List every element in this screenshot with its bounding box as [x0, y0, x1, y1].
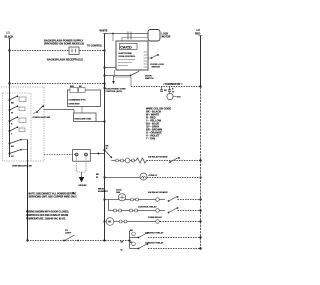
svg-text:(PROVIDED ON SOME MODELS): (PROVIDED ON SOME MODELS): [44, 42, 84, 46]
svg-text:R: R: [172, 89, 174, 91]
node junction row5 L2: [199, 209, 201, 211]
svg-text:RED: RED: [70, 86, 75, 88]
node junction backsplash: [8, 49, 10, 51]
svg-text:CONTROL (EOC): CONTROL (EOC): [106, 91, 123, 93]
node junction eoc left 1: [103, 66, 105, 68]
svg-text:OVEN LT: OVEN LT: [149, 175, 159, 177]
switch row5 relay: [168, 207, 179, 213]
node junction convect1 L2: [199, 236, 201, 238]
svg-text:OV: OV: [65, 230, 69, 232]
svg-text:CA/CD: CA/CD: [120, 46, 132, 50]
selector switch SW4: [9, 126, 26, 135]
svg-text:< THERMOSTAT >: < THERMOSTAT >: [163, 83, 183, 86]
switch convect 1: [130, 232, 149, 238]
selector switch SW2: [9, 105, 26, 114]
wire left to center y83: [10, 83, 105, 85]
wire branch row5: [108, 200, 110, 211]
svg-text:BK: BK: [96, 174, 100, 176]
selector switch enclosure dashed: [3, 93, 32, 161]
svg-text:DOOR: DOOR: [145, 75, 152, 77]
label note block 1: [29, 191, 78, 198]
wire lock motor bottom: [122, 38, 148, 42]
wire bottom row: [28, 240, 130, 242]
wire backsplash supply: [10, 50, 105, 52]
node junction light row: [103, 176, 105, 178]
dashed enclosure right extension: [31, 87, 44, 161]
thermostat contact 2: [168, 87, 174, 94]
thermostat contact 1: [160, 87, 167, 93]
svg-text:FAN: FAN: [116, 191, 121, 194]
oven lamp DS1: [140, 173, 147, 180]
node junction receptacle: [98, 153, 100, 155]
switch convect 2: [130, 243, 149, 249]
selector switch SW1: [9, 95, 27, 104]
node junction convect2 L2: [199, 247, 201, 249]
door lock switch S2: [148, 54, 159, 59]
wire center bus: [104, 34, 106, 241]
svg-text:OVEN LIGHT SW: OVEN LIGHT SW: [33, 117, 51, 119]
node junction fan row: [103, 198, 105, 200]
wire thermostat row: [131, 86, 201, 88]
svg-text:BK: BK: [11, 103, 14, 105]
label BK oven light row: [96, 174, 100, 179]
wire EOC drop: [112, 34, 114, 42]
node junction bake row: [103, 149, 105, 151]
wire row5 to L2: [178, 210, 201, 212]
svg-text:BU: BU: [11, 146, 14, 148]
wire lamp to L2: [147, 177, 201, 179]
wire row5: [109, 210, 166, 212]
svg-text:ELECTRONIC: ELECTRONIC: [119, 53, 133, 55]
node N center bus top: [100, 30, 108, 34]
node junction row6 L2: [199, 220, 201, 222]
svg-text:LIGHT: LIGHT: [65, 233, 72, 235]
svg-text:MOTOR: MOTOR: [162, 36, 171, 39]
node L2: [195, 28, 203, 36]
combined PTG box: [68, 86, 101, 107]
selector switch SW6: [9, 149, 28, 158]
wire bus to eoc: [105, 67, 117, 69]
label cooling fan: [116, 190, 123, 195]
wire box to bus: [96, 121, 105, 123]
svg-text:L2: L2: [197, 28, 201, 32]
legend wire colors: [146, 107, 171, 141]
terminal circles bake: [116, 158, 135, 163]
oven receptacle J2: [73, 150, 91, 162]
motor fan M2: [118, 194, 125, 201]
svg-text:BK: BK: [121, 242, 124, 244]
svg-text:OVEN CONTROL: OVEN CONTROL: [119, 56, 136, 58]
svg-text:CONTROL RELAY: CONTROL RELAY: [138, 206, 157, 209]
svg-text:W: W: [130, 242, 132, 244]
svg-text:TOD: TOD: [177, 97, 182, 99]
wire convect2 to L2: [148, 248, 201, 250]
svg-text:AS RELAY BOARD: AS RELAY BOARD: [148, 156, 168, 159]
door switch S3: [130, 70, 139, 76]
svg-text:BK: BK: [130, 230, 133, 232]
svg-text:Y: Y: [11, 134, 13, 136]
svg-text:NOTE: DISCONNECT ALL POWER BEF: NOTE: DISCONNECT ALL POWER BEFORE: [29, 192, 77, 195]
svg-text:W: W: [121, 250, 123, 252]
wire convect riser: [129, 231, 131, 249]
svg-text:BK: BK: [106, 146, 110, 148]
wire convect1 to L2: [148, 237, 201, 239]
wire lock motor top: [105, 33, 149, 35]
svg-text:W: W: [106, 148, 108, 150]
svg-text:OVEN STAT: OVEN STAT: [69, 103, 81, 106]
selector switch SW3: [9, 116, 27, 125]
node junction left y83: [8, 82, 10, 84]
oven light switch S4: [33, 105, 74, 113]
wire row6 to L2: [160, 221, 201, 223]
svg-text:TEMPERATURE. 120/240 VAC 60 HZ: TEMPERATURE. 120/240 VAC 60 HZ.: [26, 218, 66, 221]
terminals fan row: [131, 198, 160, 202]
label door switch: [145, 75, 154, 80]
wire fan row: [105, 199, 166, 201]
svg-text:R: R: [11, 124, 13, 126]
wire light row: [105, 177, 141, 179]
svg-text:WIRING SHOWN WITH DOOR CLOSED,: WIRING SHOWN WITH DOOR CLOSED,: [26, 211, 69, 213]
label note block 2: [26, 211, 69, 220]
svg-text:AS RELAY BOARD: AS RELAY BOARD: [148, 191, 168, 194]
motor convection M3: [106, 218, 114, 226]
terminals row6: [119, 220, 159, 224]
dashed enclosure outer top: [1, 86, 44, 88]
TOD T1: [167, 91, 181, 99]
selector switch SW5: [9, 139, 28, 148]
wire bus to door switch: [105, 75, 131, 77]
wire L2 bus: [200, 36, 202, 88]
wire bake to L2: [147, 160, 201, 162]
coil convect 2: [130, 242, 135, 246]
node junction bake L2: [199, 159, 201, 161]
label door lock switch: [151, 64, 165, 69]
node right bus top junction: [199, 85, 201, 87]
svg-text:DOOR LOCK: DOOR LOCK: [151, 64, 165, 66]
node junction riser bottom: [128, 239, 130, 241]
node junction bus eoc label: [103, 87, 105, 89]
node junction center y83: [103, 82, 105, 84]
svg-text:RED: RED: [195, 33, 200, 36]
high limit stat box: [74, 107, 97, 122]
svg-text:BACKSPLASH RECEPTACLE: BACKSPLASH RECEPTACLE: [47, 58, 83, 62]
coil convect 1: [130, 230, 135, 236]
switch bake: [105, 150, 113, 158]
svg-text:GROUND: GROUND: [79, 185, 88, 187]
wire receptacle right: [90, 153, 104, 155]
node junction lamp L2: [199, 176, 201, 178]
oven control U1 EOC box: [116, 41, 148, 70]
node junction row6: [103, 220, 105, 222]
svg-text:BROIL: BROIL: [98, 188, 105, 190]
svg-text:BK: BK: [164, 90, 167, 92]
connector pins bottom: [128, 36, 131, 40]
label eoc note: [106, 88, 126, 93]
node L1: [5, 31, 14, 39]
switch bake relay: [169, 157, 180, 163]
svg-text:CONTROLS OFF AND OVEN AT ROOM: CONTROLS OFF AND OVEN AT ROOM: [26, 214, 68, 217]
svg-text:COOL: COOL: [116, 190, 123, 192]
wire selector output: [27, 140, 29, 241]
label backsplash power supply: [44, 39, 84, 46]
node bottom left: [26, 239, 28, 241]
svg-text:W: W: [11, 113, 13, 115]
node junction fan L2: [199, 198, 201, 200]
connector pins top: [128, 32, 131, 36]
svg-text:HIGH LIMIT STAT: HIGH LIMIT STAT: [75, 117, 93, 120]
wire receptacle ground drops: [77, 156, 86, 172]
svg-text:SWITCH: SWITCH: [152, 67, 161, 69]
svg-text:ELECTRONIC OVEN: ELECTRONIC OVEN: [106, 88, 126, 90]
node junction box bus: [103, 120, 105, 122]
node junction eoc drop: [112, 33, 114, 35]
terminals row5: [114, 209, 160, 213]
svg-text:T - TAN: T - TAN: [146, 137, 155, 141]
switch fan relay: [168, 196, 179, 202]
wire bake row: [111, 160, 136, 162]
wire receptacle left: [44, 154, 75, 156]
svg-text:W: W: [96, 177, 98, 179]
wire EOC to thermostat: [115, 70, 132, 87]
node junction center bottom: [103, 239, 105, 241]
svg-text:SWITCH: SWITCH: [145, 78, 154, 80]
ground arrow: [112, 76, 115, 84]
label lock motor: [162, 33, 171, 39]
switch oven light bottom: [63, 235, 79, 241]
svg-text:SERVICING UNIT. USE COPPER WIR: SERVICING UNIT. USE COPPER WIRE ONLY.: [29, 197, 78, 199]
node junction door switch: [103, 74, 105, 76]
backsplash receptacle: [69, 47, 79, 55]
svg-text:OVEN RELAY: OVEN RELAY: [148, 216, 163, 219]
lock motor M1: [148, 30, 160, 42]
wire fan to L2: [178, 199, 201, 201]
node junction center top: [103, 49, 105, 51]
label broil element: [98, 188, 109, 193]
ground symbol: [79, 172, 88, 187]
label BK node bake: [106, 146, 110, 151]
wire row6: [114, 221, 160, 223]
resistor bake element: [136, 158, 147, 163]
svg-text:ELEMENT: ELEMENT: [98, 191, 109, 193]
svg-text:GY: GY: [11, 156, 14, 158]
svg-text:L1: L1: [7, 31, 11, 35]
svg-text:OVEN SELECTOR SW: OVEN SELECTOR SW: [12, 166, 32, 168]
svg-text:COMBINED PTG: COMBINED PTG: [69, 100, 86, 102]
svg-text:WHITE: WHITE: [100, 30, 108, 33]
svg-text:W: W: [172, 91, 174, 93]
svg-text:TO CONTROL: TO CONTROL: [87, 46, 103, 48]
wire L1 bus: [9, 38, 11, 157]
label oven light bottom: [65, 230, 72, 235]
